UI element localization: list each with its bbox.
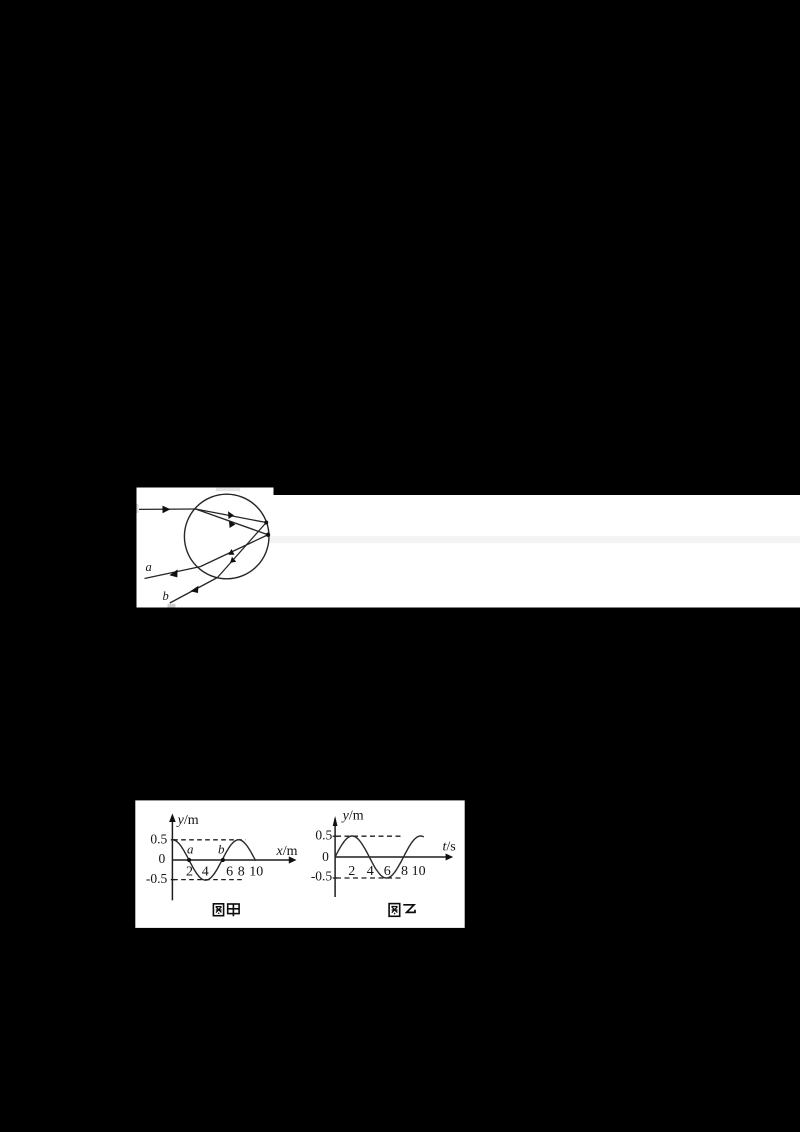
x-axis [172, 859, 294, 861]
svg-text:0: 0 [159, 851, 166, 866]
y-axis arrow [333, 816, 338, 826]
x-axis [335, 856, 451, 858]
x-axis arrow [446, 854, 454, 861]
svg-text:2: 2 [186, 865, 193, 880]
arrow on ray to D2 [229, 520, 236, 528]
white panel left (diagram box) [137, 488, 274, 608]
wire: refracted ray entry to D1 [196, 509, 267, 523]
svg-text:b: b [163, 589, 169, 603]
white band right [273, 495, 800, 608]
arrow on internal ray D1-Eb [230, 557, 236, 563]
circle (water drop) [184, 494, 269, 579]
tick -0.5 [171, 879, 175, 881]
gray strip across band [270, 536, 800, 543]
dashed -0.5 line [173, 879, 242, 881]
gray tab at bottom edge [168, 604, 176, 608]
gray smudge above circle [216, 488, 240, 491]
svg-text:-0.5: -0.5 [311, 869, 333, 884]
svg-text:10: 10 [249, 864, 263, 879]
x-axis arrow [289, 856, 297, 863]
tick mark -0.5 [333, 877, 338, 879]
svg-text:t/s: t/s [443, 840, 456, 855]
dashed -0.5 line [336, 877, 402, 879]
svg-text:6: 6 [226, 864, 233, 879]
arrow on incoming ray [163, 506, 171, 514]
caption tu-jia glyph 2 (jia) [228, 904, 239, 916]
dashed +0.5 line [336, 835, 404, 837]
svg-text:a: a [187, 842, 194, 857]
figure 2: wave graphs [135, 800, 465, 928]
wire: internal reflected ray D1 to exit b [218, 523, 267, 578]
svg-text:2: 2 [348, 864, 355, 879]
wave curve yi [335, 836, 424, 878]
caption tu-jia glyph 1 (tu) [213, 904, 223, 916]
svg-text:x/m: x/m [276, 844, 298, 859]
wire: exit ray b [170, 578, 218, 604]
node a dot [187, 858, 191, 862]
arrow on internal ray D2-Ea [228, 549, 234, 555]
caption tu-yi glyph 1 (tu) [389, 904, 400, 917]
arrow on ray to D1 [228, 511, 234, 519]
caption tu-yi glyph 2 (yi) [403, 905, 415, 913]
wave curve jia [173, 840, 255, 880]
svg-text:8: 8 [401, 864, 408, 879]
node D2 [266, 533, 270, 537]
svg-text:4: 4 [367, 864, 374, 879]
svg-text:0.5: 0.5 [315, 828, 332, 843]
node b dot [221, 858, 225, 862]
node D1 [264, 521, 268, 525]
arrow on exit ray b [190, 586, 198, 593]
y-axis [334, 819, 336, 898]
figure 1: light dispersion through a spherical drop [136, 487, 800, 608]
svg-text:y/m: y/m [176, 813, 199, 828]
tick +0.5 [171, 839, 175, 841]
svg-text:10: 10 [412, 864, 426, 879]
svg-text:a: a [146, 560, 152, 574]
y-axis arrow [169, 814, 176, 823]
svg-text:8: 8 [238, 864, 245, 879]
y-axis [171, 819, 173, 900]
svg-text:-0.5: -0.5 [146, 871, 168, 886]
svg-text:0: 0 [322, 849, 329, 864]
svg-text:6: 6 [384, 864, 391, 879]
wire: refracted ray entry to D2 [196, 509, 268, 535]
arrow on exit ray a [169, 569, 177, 577]
wire: incoming horizontal ray [139, 508, 196, 510]
svg-text:b: b [218, 842, 225, 857]
svg-text:0.5: 0.5 [150, 831, 167, 846]
wire: internal reflected ray D2 to exit a [200, 535, 268, 567]
dashed +0.5 line [173, 839, 245, 841]
gray tick at left edge (ray start) [137, 504, 139, 513]
svg-text:y/m: y/m [341, 809, 364, 824]
tick mark +0.5 [333, 835, 338, 837]
svg-text:4: 4 [202, 865, 209, 880]
wire: exit ray a [145, 567, 201, 579]
